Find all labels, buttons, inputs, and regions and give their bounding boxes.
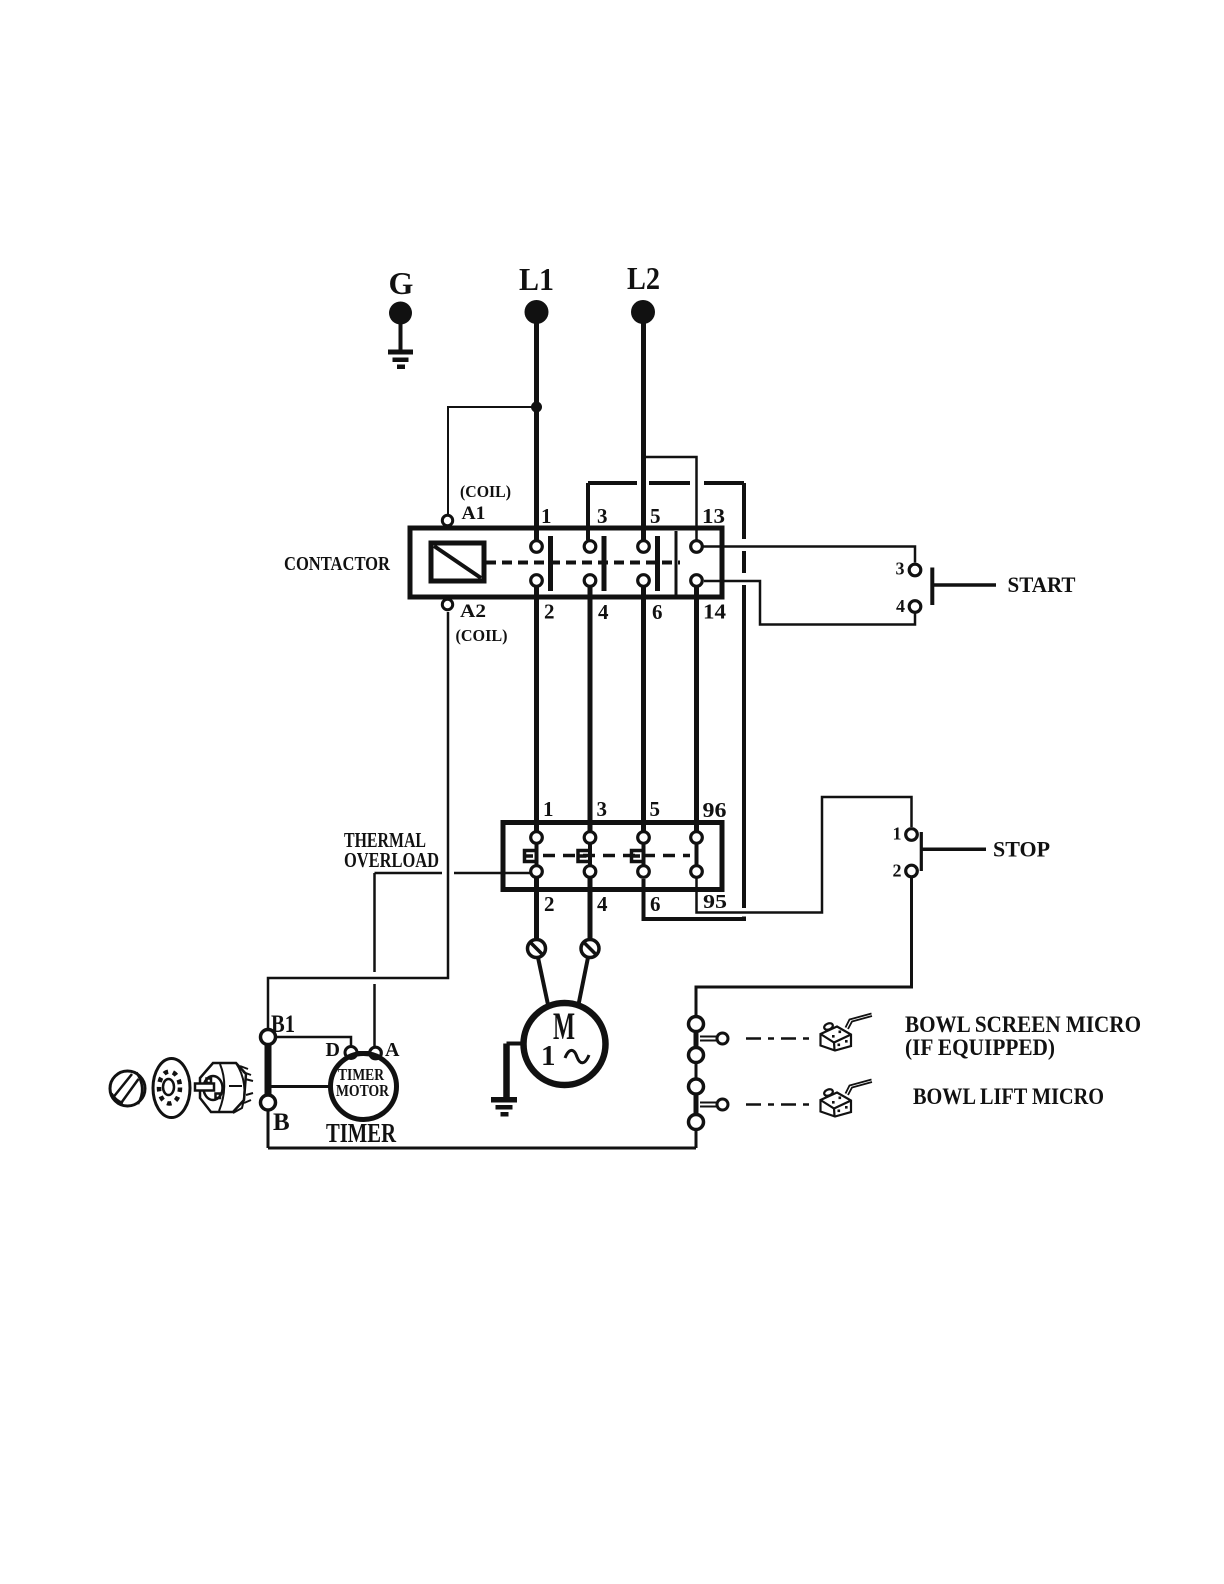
svg-text:6: 6: [652, 600, 663, 624]
junction on L1: [531, 402, 542, 413]
start button terminal 3: [909, 564, 921, 576]
timer gear motor drawing: [195, 1063, 253, 1113]
timer terminal B: [261, 1095, 276, 1110]
contactor coil symbol: [431, 543, 484, 581]
svg-text:13: 13: [702, 504, 725, 528]
motor lead connector 1 (circle with slash): [528, 940, 546, 958]
overload internal column stubs: [537, 843, 697, 866]
overload dashed linkage: [543, 854, 690, 858]
bowl lift micro contact bar: [694, 1094, 699, 1114]
wire contactor 14 to overload 96: [694, 588, 699, 839]
coil terminal A2: [442, 599, 452, 609]
motor M1 circle: [524, 1003, 606, 1085]
svg-text:STOP: STOP: [993, 837, 1050, 862]
svg-text:TIMER: TIMER: [326, 1118, 396, 1148]
contactor pole 3/4: [584, 541, 596, 553]
svg-text:96: 96: [703, 798, 727, 822]
node L1 terminal dot: [525, 300, 549, 324]
link D to A: [356, 1051, 369, 1055]
svg-text:1: 1: [541, 1040, 556, 1072]
timer motor terminal A: [370, 1047, 382, 1059]
svg-text:L2: L2: [627, 260, 660, 296]
start button actuator bar: [930, 568, 934, 606]
timer contact bar B1-B: [265, 1044, 272, 1096]
svg-text:D: D: [326, 1039, 340, 1061]
svg-text:CONTACTOR: CONTACTOR: [284, 553, 390, 575]
ground symbol (G): [388, 350, 413, 370]
bowl screen micro actuator arm: [700, 1036, 717, 1038]
motor lead slanted wires: [538, 958, 549, 1008]
wire L1 junction to coil A1: [448, 407, 537, 514]
wire overload 2 to timer motor A: [375, 872, 443, 875]
wire contactor 3 loop horizontal (hops at crossings): [588, 481, 744, 485]
wire corner into contactor 3: [586, 483, 590, 540]
svg-text:BOWL SCREEN MICRO: BOWL SCREEN MICRO: [905, 1012, 1141, 1037]
svg-text:A: A: [385, 1039, 400, 1061]
heater element 2: [578, 851, 591, 862]
svg-text:5: 5: [650, 504, 661, 528]
wire overload 6 bottom loop: [644, 879, 745, 919]
thermal overload box: [503, 823, 722, 890]
overload aux 96/95: [691, 832, 703, 844]
bowl screen micro contact bar: [694, 1031, 699, 1048]
svg-text:4: 4: [597, 892, 608, 916]
svg-text:2: 2: [544, 600, 555, 624]
overload pole 5/6: [638, 832, 650, 844]
dash-dot link to bowl screen micro: [746, 1037, 812, 1040]
bottom rail wire: [268, 1147, 696, 1150]
svg-text:6: 6: [650, 892, 661, 916]
svg-text:M: M: [553, 1005, 575, 1048]
bowl lift micro actuator arm: [700, 1102, 717, 1104]
overload pole 1/2: [531, 832, 543, 844]
start button actuator stem: [934, 583, 996, 587]
svg-text:(IF EQUIPPED): (IF EQUIPPED): [905, 1035, 1055, 1060]
wire stop 2 down to micro chain: [696, 878, 912, 1017]
svg-text:A2: A2: [460, 601, 486, 622]
svg-text:START: START: [1008, 572, 1076, 597]
svg-text:1: 1: [541, 504, 552, 528]
svg-text:L1: L1: [519, 261, 554, 297]
wire B1 to timer motor D: [276, 1037, 352, 1046]
svg-text:3: 3: [597, 504, 608, 528]
wire contactor 2 to overload 1: [534, 588, 539, 839]
wire L2 branch to contact 13: [644, 457, 697, 540]
dash-dot link to bowl lift micro: [746, 1103, 812, 1106]
timer terminal B1: [261, 1030, 276, 1045]
svg-text:3: 3: [597, 797, 608, 821]
wire overload 3 to motor lead: [588, 879, 593, 941]
bowl screen micro terminal bottom: [689, 1048, 704, 1063]
timer motor terminal D: [345, 1047, 357, 1059]
contactor aux divider: [675, 531, 678, 595]
ground symbol (motor): [491, 1097, 517, 1117]
stop button actuator stem: [922, 848, 986, 852]
motor label tilde: [565, 1050, 589, 1062]
motor lead connector 2 (circle with slash): [581, 940, 599, 958]
wire G stem: [399, 313, 403, 350]
wire L1 vertical: [534, 318, 539, 547]
timer motor circle: [331, 1054, 397, 1120]
contactor pole 5/6: [638, 541, 650, 553]
node G terminal dot: [389, 302, 412, 325]
bowl screen micro switch icon: [821, 1014, 873, 1051]
wire contact 14 to start button 4: [704, 581, 915, 625]
svg-text:B1: B1: [271, 1011, 295, 1038]
bowl lift micro terminal bottom: [689, 1115, 704, 1130]
heater element 3: [632, 851, 645, 862]
contactor pole 1/2: [531, 541, 543, 553]
wire overload 95 to stop 1: [697, 797, 912, 913]
svg-text:2: 2: [893, 861, 902, 881]
contactor aux contact 13/14: [691, 541, 703, 553]
start button terminal 4: [909, 601, 921, 613]
timer dial drawing: [153, 1059, 190, 1118]
stop button terminal 1: [906, 829, 918, 841]
wire timer bar to motor: [272, 1085, 331, 1088]
svg-text:3: 3: [896, 559, 905, 579]
motor ground wire: [507, 1042, 524, 1046]
contactor box: [410, 528, 722, 597]
stop button terminal 2: [906, 865, 918, 877]
svg-text:BOWL LIFT MICRO: BOWL LIFT MICRO: [913, 1084, 1104, 1109]
wire contactor 6 to overload 5: [641, 588, 646, 839]
bowl screen micro terminal top: [689, 1017, 704, 1032]
bowl lift micro switch icon: [821, 1080, 873, 1117]
svg-text:OVERLOAD: OVERLOAD: [344, 848, 439, 872]
wire coil A2 down to timer B1: [268, 612, 448, 1030]
wire micro chain to bottom rail: [695, 1130, 698, 1149]
stop button contact bar: [920, 832, 923, 871]
svg-text:5: 5: [650, 797, 661, 821]
svg-text:1: 1: [893, 824, 902, 844]
bowl lift micro terminal top: [689, 1079, 704, 1094]
svg-text:95: 95: [703, 891, 727, 913]
overload pole 3/4: [584, 832, 596, 844]
svg-text:2: 2: [544, 892, 555, 916]
wire overload 1 to motor lead: [534, 879, 539, 941]
wire between micro switches: [695, 1062, 698, 1080]
timer knob drawing: [110, 1071, 145, 1106]
svg-text:4: 4: [598, 600, 609, 624]
svg-text:(COIL): (COIL): [456, 626, 508, 645]
heater element 1: [525, 851, 538, 862]
wire L2 vertical: [641, 318, 646, 547]
wire contact 13 to start button 3: [704, 547, 916, 563]
svg-text:1: 1: [543, 797, 554, 821]
contactor linkage dashed line: [486, 561, 680, 565]
svg-text:G: G: [389, 265, 414, 301]
coil terminal A1: [442, 515, 452, 525]
svg-text:MOTOR: MOTOR: [336, 1081, 390, 1100]
node L2 terminal dot: [631, 300, 655, 324]
wire contactor 4 to overload 3: [588, 588, 593, 839]
svg-text:4: 4: [896, 596, 905, 616]
svg-text:14: 14: [703, 600, 727, 624]
svg-text:(COIL): (COIL): [460, 482, 511, 501]
wire loop vertical to overload 6 (hops at crossings): [742, 483, 746, 908]
svg-text:B: B: [273, 1109, 290, 1136]
svg-text:A1: A1: [462, 503, 486, 524]
wire B down to bottom rail: [267, 1110, 270, 1148]
